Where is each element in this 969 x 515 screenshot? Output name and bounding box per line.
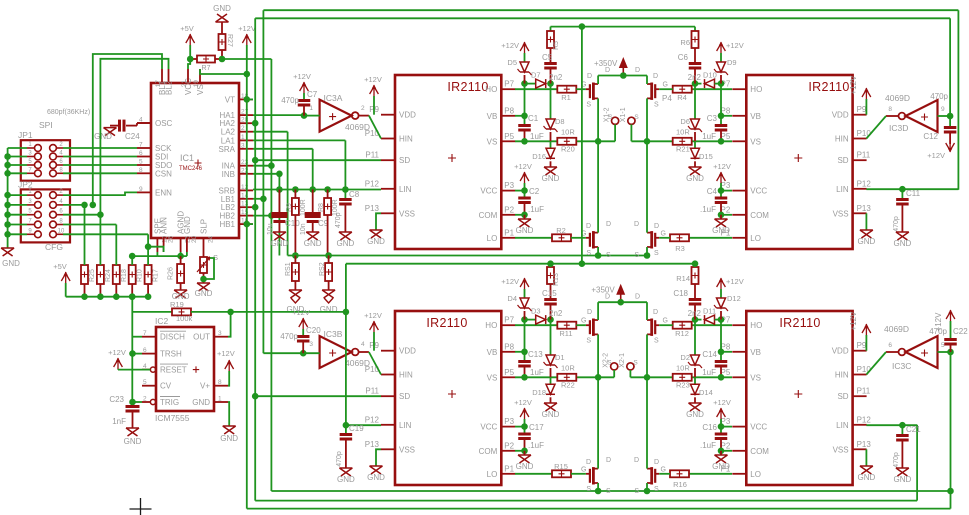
svg-text:100k: 100k [176,314,193,323]
supply +12V at VDD-B [370,321,379,332]
svg-text:IC3B: IC3B [324,329,343,339]
pin VB (P8) of IR2110 IC8 bottom-right [732,351,746,353]
wire VSS-C to ground [865,213,867,230]
svg-text:C7: C7 [307,90,318,99]
svg-text:LIN: LIN [836,185,849,194]
svg-text:VS: VS [487,137,498,146]
svg-text:GND: GND [894,475,912,484]
svg-text:S: S [586,250,591,257]
wire IC3B input [263,352,319,354]
wire right vertical line1 to LIN-C [957,10,959,190]
resistor R23 10R right [673,374,692,381]
pin OSC (4) of IC1 [137,122,151,124]
capacitor C11 470p [901,189,903,198]
ground GND of D15 [689,167,702,175]
svg-text:GND: GND [686,410,704,419]
wire +5V node to IC1 VCC [188,59,190,69]
svg-text:D1: D1 [555,353,565,362]
svg-text:680pf(36KHz): 680pf(36KHz) [47,109,90,116]
svg-text:+12V: +12V [292,308,310,317]
svg-text:21: 21 [181,80,188,88]
ground GND of VSS-D [860,466,873,474]
svg-text:R26: R26 [168,267,175,280]
svg-text:ICM7555: ICM7555 [155,413,190,423]
svg-text:C6: C6 [678,53,689,62]
gate IC3B 4069D inverter [320,336,352,368]
wire phase right [630,376,672,378]
svg-text:P3: P3 [504,181,514,190]
wire IC1 LB2 to bus B [253,206,255,208]
svg-text:GND: GND [2,259,20,268]
svg-text:D7: D7 [531,71,541,80]
pin VCC (P3) of IR2110 IC6 bottom-left [501,426,515,428]
svg-text:+5V: +5V [180,24,194,33]
svg-text:P11: P11 [365,151,379,160]
pin LA2 (2) of IC1 [239,131,253,133]
node R7 left junction [187,56,194,63]
wire LIN-B row [346,424,381,426]
svg-text:8: 8 [139,167,143,174]
IC IR2110 IC7 top-right [746,75,852,249]
svg-text:R25: R25 [89,269,96,282]
svg-text:P12: P12 [365,415,380,424]
ground GND of R26 [174,290,187,298]
wire IC1 bottom pin down [156,252,158,256]
wire bus vertical E filter to sense [278,174,280,256]
svg-text:VB: VB [487,112,498,121]
wire BL2 loop to JP2 [100,59,168,215]
pin BL2 of IC1 (top) [168,69,170,83]
svg-text:R3: R3 [675,244,685,253]
svg-text:CFG: CFG [45,242,63,252]
svg-text:S: S [654,337,659,344]
wire right vertical LIN-D net [916,425,918,501]
wire JP2.2 to IC1 ENN [63,192,137,195]
ground GND of C9 [306,232,319,240]
node bootstrap left C5 [521,80,528,87]
svg-text:C1: C1 [528,114,539,123]
wire IC1 LA2 to sense corner vertical [253,131,288,133]
svg-text:P12: P12 [365,179,380,188]
resistor R11 gate upper-left [515,324,557,326]
svg-text:1nF: 1nF [112,417,126,426]
ground GND of C19 [339,468,352,476]
pin HA1 (27) of IC1 [239,114,253,116]
IC IR2110 IC6 bottom-left [395,311,501,485]
svg-text:+12V: +12V [217,349,235,358]
svg-text:10R: 10R [561,127,575,136]
svg-text:CV: CV [160,382,172,391]
svg-text:SD: SD [399,392,410,401]
svg-text:R16: R16 [673,480,687,489]
pin ENN (9) of IC1 [137,191,151,193]
capacitor C19 470p [345,425,347,433]
supply +12V at VDD-C [862,88,871,99]
svg-text:VT: VT [225,95,235,104]
resistor R12 gate upper-right [692,324,732,326]
ground GND of VSS-B [370,466,383,474]
svg-text:C15: C15 [542,289,557,298]
node C10 junction [276,186,283,193]
wire IC2 OUT up to R19 [228,312,231,337]
pin VCC (P3) of IR2110 IC8 bottom-right [732,426,746,428]
svg-text:P12: P12 [857,415,872,424]
trimmer S on SLP pin [203,252,205,257]
pin LO (P1) of IR2110 IC8 bottom-right [732,473,746,475]
wire +5V rail under pulls [66,296,148,298]
svg-text:S: S [634,114,639,121]
wire IC1 LA1 right [253,139,345,141]
pin HO (P7) of IR2110 IC8 bottom-right [732,324,746,326]
svg-text:ANN: ANN [160,217,169,234]
wire +12V vertical main [246,45,248,509]
wire VB-right to cap [721,351,732,353]
wire IC3B output slant to HIN [369,352,381,375]
wire IC2 TRSH left [133,353,143,355]
pin VCC (P3) of IR2110 IC7 top-right [732,190,746,192]
wire SD-B to bus [255,395,381,397]
diode D4 zener to +12V [520,278,529,289]
svg-text:P4: P4 [662,94,672,103]
svg-text:+12V: +12V [108,348,126,357]
svg-text:D6: D6 [680,117,690,126]
resistor R24 pull-up [97,265,104,284]
svg-text:R22: R22 [561,380,575,389]
wire JP1 pad to bus [8,172,27,174]
supply +350V [622,65,624,76]
svg-text:RESET: RESET [160,366,187,375]
wire IC3A output stub [359,115,369,117]
svg-text:10R: 10R [676,127,690,136]
svg-text:G: G [581,318,586,325]
svg-text:2n2: 2n2 [549,73,563,82]
ground GND of RS2 [322,290,335,298]
svg-text:HIN: HIN [835,371,849,380]
svg-text:D9: D9 [727,58,737,67]
svg-text:D10: D10 [703,71,717,80]
sheet origin crosshair [130,498,152,515]
wire IC3C output stub [886,351,898,353]
wire IC1 SRA right [253,148,313,150]
svg-text:GND: GND [304,239,322,248]
supply +5V of pull rail [61,272,70,283]
svg-text:ENN: ENN [155,188,172,197]
resistor RS1 sense [294,256,296,264]
svg-text:S: S [586,101,591,108]
svg-text:R7: R7 [202,65,211,72]
svg-text:HO: HO [750,85,762,94]
svg-text:GND: GND [183,216,192,234]
svg-text:SRA: SRA [219,145,236,154]
svg-text:19: 19 [193,80,200,88]
ground GND of VSS-A [370,230,383,238]
capacitor C2 VCC left [515,190,525,192]
svg-text:G: G [581,466,586,473]
svg-text:S: S [634,252,639,259]
ground GND of C23 [126,428,139,436]
svg-text:D: D [586,459,591,466]
pin HIN (P10) of IR2110 IC8 bottom-right [853,374,867,376]
wire IC1 analog gnd row [157,255,187,257]
svg-text:D: D [635,67,640,74]
svg-text:RS2: RS2 [319,262,326,276]
svg-text:P2: P2 [504,441,514,450]
svg-text:VSS: VSS [399,209,415,218]
svg-text:+12V: +12V [849,75,858,95]
capacitor C3 bootstrap right 1uF [720,84,722,116]
resistor R27 [221,22,223,34]
svg-text:VB: VB [750,348,761,357]
svg-text:GND: GND [858,237,876,246]
svg-text:P5: P5 [504,368,514,377]
svg-text:VS: VS [487,373,498,382]
svg-text:GND: GND [94,132,112,141]
wire IC3D input [938,115,951,117]
svg-text:2n2: 2n2 [688,309,702,318]
ground GND of C24 [110,125,118,127]
svg-text:GND: GND [712,462,730,471]
resistor R14 charge right [694,264,696,267]
capacitor C16 VCC right [721,426,732,428]
svg-text:LA2: LA2 [221,128,236,137]
svg-text:GND: GND [337,239,355,248]
wire IC2 DISCH left [133,336,143,338]
svg-text:VCC: VCC [480,423,497,432]
svg-text:S: S [608,114,613,121]
svg-text:CSN: CSN [155,169,172,178]
svg-text:P8: P8 [504,342,514,351]
svg-text:R12: R12 [675,329,689,338]
svg-text:1uF: 1uF [702,368,716,377]
svg-text:24: 24 [208,235,215,243]
pin INA (23) of IC1 [239,165,253,167]
svg-text:+12V: +12V [364,75,382,84]
svg-text:P13: P13 [365,440,380,449]
pin AGND of IC1 (bottom) [180,238,182,252]
pin VS (P5) of IR2110 IC8 bottom-right [732,376,746,378]
wire SRA down to filter [312,149,314,190]
svg-text:5: 5 [143,379,147,386]
svg-text:R2: R2 [556,226,566,235]
wire IC1 HA1 to IC3A input [253,114,304,116]
wire right vertical IC3C input net [950,352,952,509]
diode D2 zener right upper [694,320,696,355]
svg-text:470p: 470p [893,452,900,468]
svg-text:SLP: SLP [200,219,209,234]
capacitor C23 1nF [126,405,140,408]
svg-text:+350V: +350V [591,286,615,295]
pin TRSH (6) of IC2 [142,353,156,355]
svg-text:OSC: OSC [155,119,173,128]
svg-text:R17: R17 [153,269,160,282]
svg-text:TMC246: TMC246 [179,166,203,172]
wire VB-A to cap [515,351,525,353]
wire oscillator corner to LIN-B [345,264,347,426]
transistor Q1 upper-left MOSFET [589,84,591,98]
pin VDD (P9) of IR2110 IC6 bottom-left [381,350,395,352]
pin HB1 (16) of IC1 [239,223,253,225]
svg-text:.1uF: .1uF [528,205,544,214]
wire R25 top to JP2 row2 [84,205,86,265]
capacitor C21 470p [901,425,903,434]
svg-text:9: 9 [139,186,143,193]
svg-text:JP2: JP2 [18,180,33,190]
ground GND of IC2 [223,426,236,434]
svg-text:VDD: VDD [832,111,849,120]
svg-text:IC3C: IC3C [892,361,911,371]
svg-text:26: 26 [168,235,175,243]
svg-text:HIN: HIN [835,135,849,144]
svg-text:VSS: VSS [399,445,415,454]
svg-text:GND: GND [542,410,560,419]
ground GND of C17 [524,451,526,455]
pin HIN (P10) of IR2110 IC5 top-left [381,138,395,140]
diode D6 zener right upper [694,84,696,119]
svg-text:VS: VS [750,137,761,146]
supply +12V top [242,34,251,45]
pin VCC (P3) of IR2110 IC5 top-left [501,190,515,192]
svg-text:HO: HO [750,321,762,330]
wire IC1 LB1 to bus C [253,198,263,200]
pin COM (P2) of IR2110 IC7 top-right [732,214,746,216]
svg-text:9: 9 [941,106,945,113]
svg-text:C12: C12 [923,132,938,141]
svg-text:D2: D2 [680,353,690,362]
wire LIN-D row [866,424,917,426]
svg-text:R19: R19 [170,300,184,309]
svg-text:20: 20 [191,235,198,243]
JP1 pads row 2 [35,153,42,160]
svg-text:LIN: LIN [399,185,412,194]
svg-text:+12V: +12V [238,24,256,33]
svg-text:7: 7 [139,142,143,149]
wire IC2 TRIG left [133,401,143,403]
svg-text:D: D [586,223,591,230]
diode D5 zener to +12V [520,42,529,53]
JP2 pads row 4 [35,221,42,228]
svg-text:R4: R4 [677,93,687,102]
svg-text:17: 17 [155,80,162,88]
transistor Q8 lower-right MOSFET [654,469,656,483]
wire bottom line y500.6 [255,500,917,502]
pin VDD (P9) of IR2110 IC5 top-left [381,114,395,116]
gate IC3C 4069D inverter [906,336,938,368]
pin HO (P7) of IR2110 IC6 bottom-left [501,324,515,326]
wire JP2 pad to bus [8,224,27,226]
wire IC1 bottom pin down [186,252,188,256]
svg-text:VS: VS [750,373,761,382]
svg-text:R21: R21 [676,144,690,153]
resistor R13 charge left [550,264,552,267]
IC IR2110 IC5 top-left [395,75,501,249]
svg-text:GND: GND [367,473,385,482]
capacitor C8 470p [344,190,346,199]
capacitor C10 10u electrolytic [278,190,280,213]
diode D18 left lower [550,377,552,384]
svg-text:+12V: +12V [713,398,731,407]
node R7 right junction [219,56,226,63]
pin LO (P1) of IR2110 IC6 bottom-left [501,473,515,475]
svg-text:DISCH: DISCH [160,333,185,342]
wire bus vertical B line2 left [254,18,256,500]
wire JP1 to IC1 SPI [63,147,137,149]
svg-text:GND: GND [542,174,560,183]
pin LB2 (13) of IC1 [239,206,253,208]
wire SD-A to bus [255,159,381,161]
svg-text:P9: P9 [857,341,867,350]
gate IC3D 4069D inverter [906,100,938,132]
transistor Q2 upper-right MOSFET [654,84,656,98]
wire R19 line to bottom right [231,311,346,313]
svg-text:D: D [587,73,592,80]
svg-text:5: 5 [139,159,143,166]
pin SD (P11) of IR2110 IC7 top-right [853,159,867,161]
svg-text:4069D: 4069D [345,358,370,368]
svg-text:S: S [654,250,659,257]
svg-text:SD: SD [399,156,410,165]
svg-text:HIN: HIN [399,135,413,144]
pin SPE of IC1 (bottom) [156,238,158,252]
wire R7 to oscillator bus [222,58,271,60]
svg-text:VCC: VCC [750,187,767,196]
ground GND above R27 [216,14,229,22]
svg-text:6: 6 [888,342,892,349]
node RS1 top [292,252,299,259]
node RS2 top [325,252,332,259]
wire phase left [515,376,557,378]
svg-text:C21: C21 [906,425,921,434]
svg-text:D: D [606,221,611,228]
wire IC3C input [938,351,951,353]
svg-text:IR2110: IR2110 [426,316,467,330]
svg-text:3: 3 [309,341,313,348]
wire JP1 pad to bus [8,164,27,166]
pin SD (P11) of IR2110 IC8 bottom-right [853,395,867,397]
resistor R25 pull-up [81,265,88,284]
svg-text:LO: LO [750,470,761,479]
svg-text:D8: D8 [555,117,565,126]
wire JP2 row wires to pulls [63,204,85,206]
svg-text:C4: C4 [707,187,718,196]
pin VS (P5) of IR2110 IC7 top-right [732,140,746,142]
pin V+ (8) of IC2 [214,385,228,387]
svg-text:470p: 470p [280,332,298,341]
svg-text:LO: LO [750,234,761,243]
pin VSS (P13) of IR2110 IC8 bottom-right [853,448,867,450]
svg-text:S: S [606,252,611,259]
pin HB2 (15) of IC1 [239,215,253,217]
svg-text:C2: C2 [529,187,540,196]
wire JP2 pad to bus [8,204,27,206]
pin VSS (P13) of IR2110 IC5 top-left [381,212,395,214]
resistor RS2 sense [328,256,330,264]
wire top line2 [255,17,950,19]
IC U IC1 TMC246 motor controller [151,83,239,238]
diode D15 right lower [694,141,696,148]
wire IC3D output slant to HIN [866,116,886,139]
resistor R20 10R left [557,138,576,145]
node +12V to VS wire [244,71,251,78]
svg-text:D3: D3 [531,307,541,316]
svg-text:C16: C16 [702,423,717,432]
ground GND of C21 [896,468,909,476]
wire R18 top to JP2 row4 [115,225,117,266]
svg-text:R18: R18 [121,269,128,282]
svg-text:10R: 10R [561,363,575,372]
node bootstrap right C6 [692,80,699,87]
svg-text:S: S [606,488,611,495]
ground GND of trimmer [197,283,210,291]
